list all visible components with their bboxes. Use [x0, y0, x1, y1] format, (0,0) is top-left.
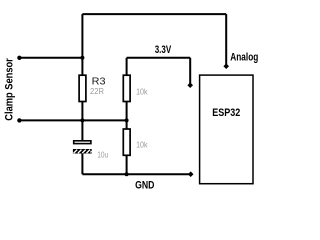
resistor R1 upper 10k [123, 75, 130, 101]
wire 10k upper bottom lead [126, 102, 128, 121]
wire top rail [82, 13, 226, 15]
wire left drop from top rail to clamp node [81, 14, 83, 58]
capacitor C1 positive plate [74, 141, 91, 144]
pin GND (diamond) [188, 171, 194, 177]
svg-text:ESP32: ESP32 [212, 107, 240, 119]
IC U1 ESP32 box [200, 75, 253, 184]
pin 3.3V (diamond) [187, 82, 193, 88]
svg-text:10k: 10k [136, 88, 147, 97]
node clamp top endpoint dot [17, 56, 21, 60]
wire middle node to divider [82, 119, 126, 121]
resistor R3 [79, 75, 86, 101]
pin Analog (diamond) [223, 63, 229, 69]
wire clamp sensor bottom lead [19, 119, 82, 121]
svg-text:Clamp Sensor: Clamp Sensor [4, 58, 16, 121]
node clamp bottom endpoint dot [17, 118, 21, 122]
wire 10k lower top lead [126, 120, 128, 129]
wire 10k upper top lead [126, 58, 128, 75]
wire R3 bottom lead [81, 102, 83, 121]
resistor R2 lower 10k [123, 129, 130, 155]
wire 3.3V rail [127, 57, 191, 59]
svg-text:Analog: Analog [230, 51, 258, 63]
svg-text:3.3V: 3.3V [155, 44, 172, 56]
svg-text:10k: 10k [136, 140, 147, 149]
svg-text:R3: R3 [92, 75, 106, 87]
svg-text:22R: 22R [90, 87, 104, 96]
svg-text:GND: GND [135, 179, 154, 191]
node junction lower divider to ground [125, 172, 129, 176]
wire 10k lower bottom lead [126, 155, 128, 174]
node junction at cap top [80, 118, 84, 122]
wire right drop from top rail to Analog pin [225, 14, 227, 66]
wire capacitor bottom lead [81, 154, 83, 175]
svg-text:10u: 10u [97, 151, 108, 160]
node junction at R3 top [80, 56, 84, 60]
wire 3.3V drop to ESP32 [189, 58, 191, 85]
wire capacitor top lead [81, 120, 83, 140]
capacitor C1 negative plate (hatched) [73, 149, 92, 154]
wire ground rail [82, 173, 190, 175]
node junction at divider midpoint [125, 118, 129, 122]
wire clamp sensor top lead [19, 57, 82, 59]
wire R3 top lead [81, 58, 83, 75]
